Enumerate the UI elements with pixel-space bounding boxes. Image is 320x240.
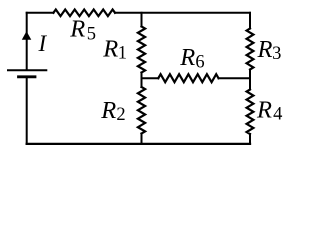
svg-text:4: 4 [273,105,282,125]
svg-text:3: 3 [272,44,281,64]
wire right side top stub [249,13,251,29]
resistor R3 [247,29,254,70]
svg-text:R: R [102,36,118,63]
wire R6 right lead [219,77,251,79]
wire left side lower [26,77,28,144]
svg-text:5: 5 [87,24,96,44]
resistor R4 [247,90,254,135]
svg-text:R: R [100,97,116,124]
current arrow I [22,31,32,40]
wire top-left segment [27,12,54,14]
wire right bottom stub [249,134,251,144]
svg-text:R: R [257,36,273,63]
wire left side upper [26,13,28,70]
svg-text:R: R [256,97,272,124]
svg-text:1: 1 [118,44,127,64]
wire middle bottom stub [141,134,143,144]
wire bottom [27,143,250,145]
battery long plate [8,69,46,71]
wire middle junction (R1-R2) [141,73,143,88]
svg-text:R: R [69,15,85,42]
wire right middle (through R6 node) [249,70,251,90]
battery short plate [19,75,36,78]
svg-text:R: R [179,44,195,71]
resistor R6 [158,74,218,82]
resistor R5 [53,10,115,17]
wire R6 left lead [142,77,159,79]
resistor R2 [138,87,145,134]
svg-text:6: 6 [195,53,204,73]
svg-text:2: 2 [116,105,125,125]
wire top-right segment [115,12,250,14]
svg-text:I: I [38,31,48,56]
resistor R1 [138,27,145,73]
wire middle branch top stub [141,13,143,27]
